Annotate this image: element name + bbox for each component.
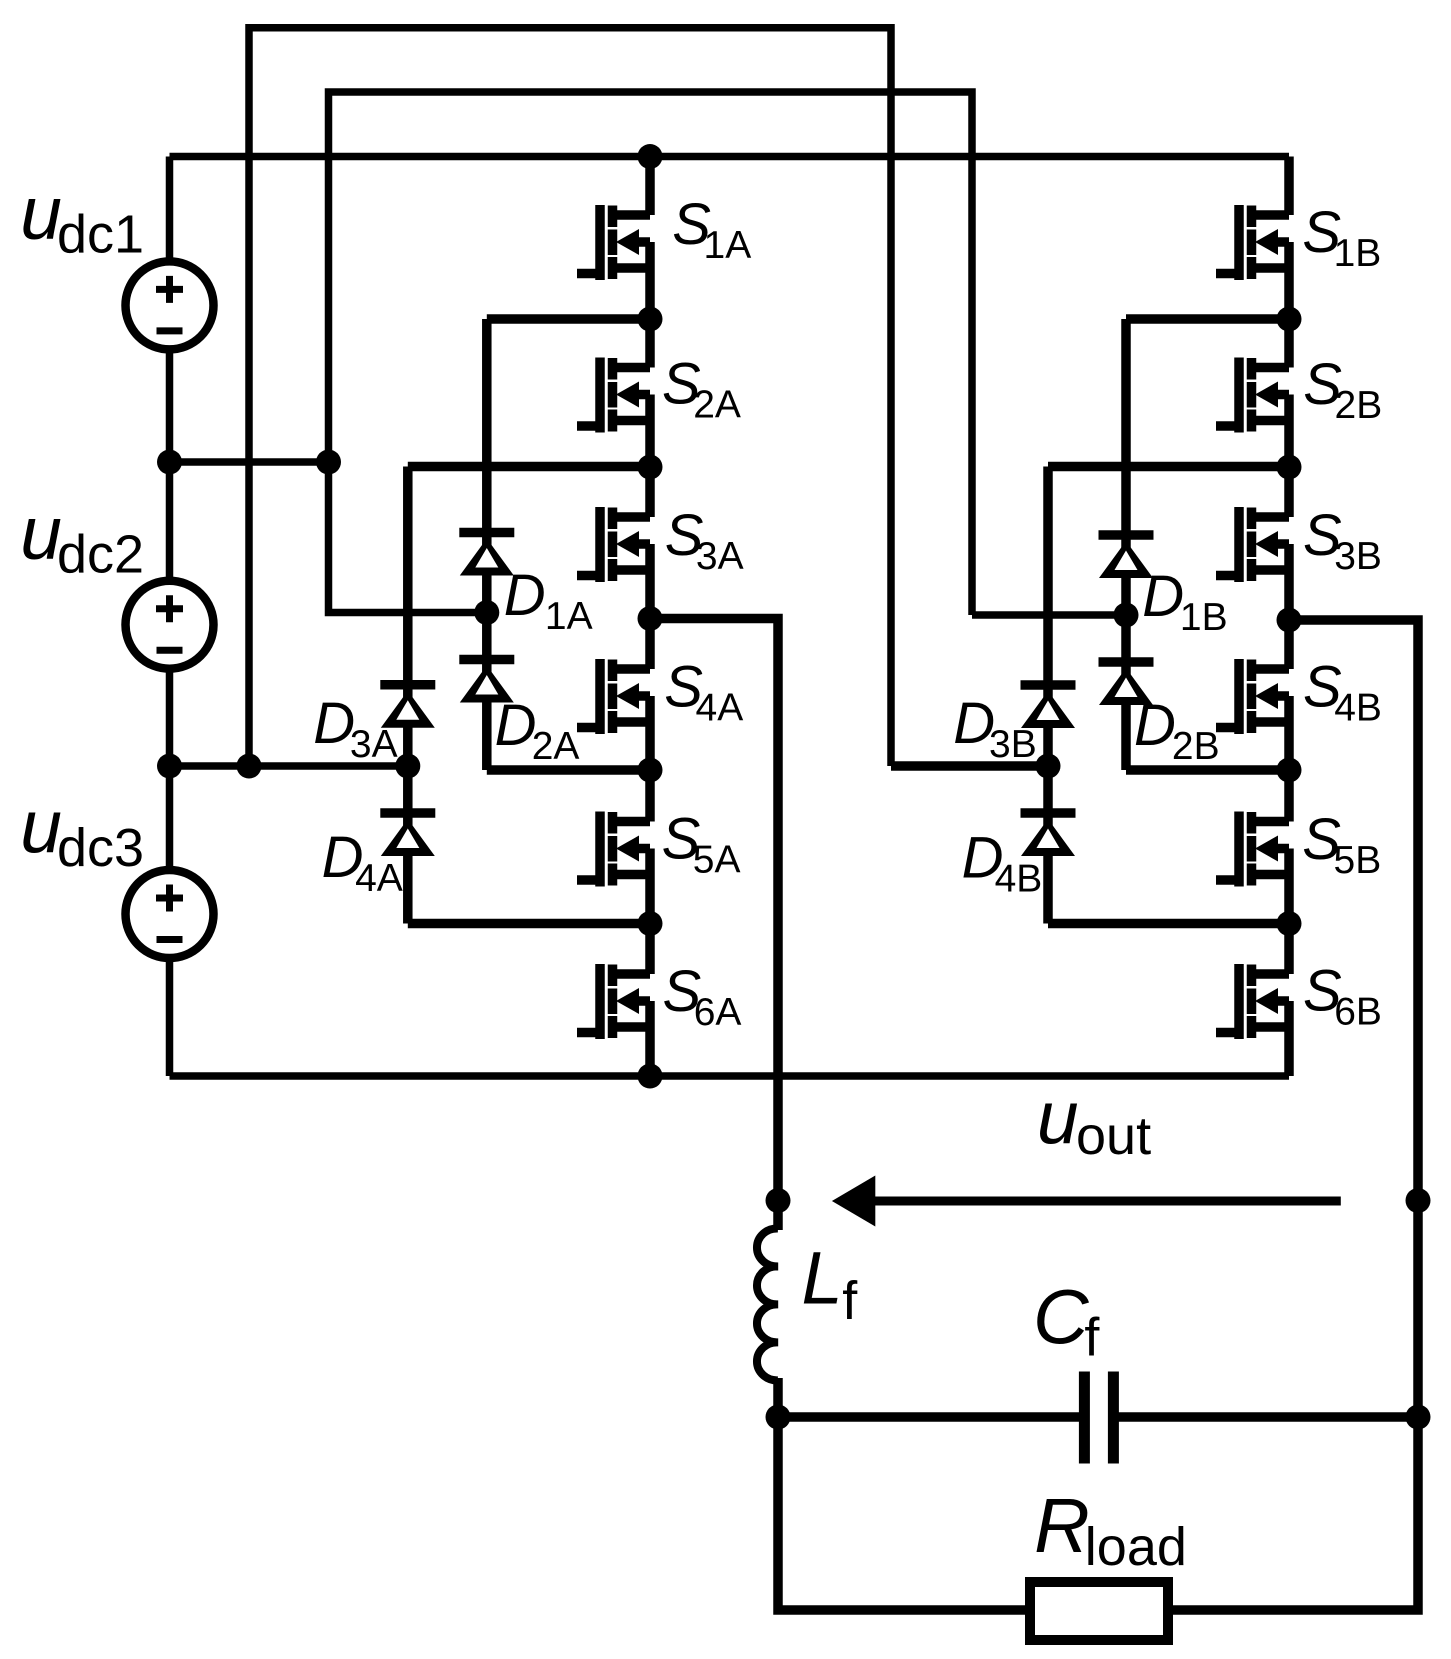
svg-text:D: D (1134, 693, 1176, 758)
svg-text:load: load (1085, 1517, 1187, 1577)
svg-text:2B: 2B (1335, 384, 1383, 427)
svg-text:D: D (1142, 564, 1184, 629)
svg-text:3A: 3A (350, 723, 398, 766)
svg-text:u: u (20, 171, 62, 255)
svg-text:2A: 2A (532, 725, 580, 768)
svg-text:3B: 3B (1334, 535, 1382, 578)
svg-text:4B: 4B (1334, 686, 1382, 729)
svg-text:4B: 4B (995, 857, 1043, 900)
svg-text:L: L (802, 1236, 843, 1319)
svg-text:out: out (1076, 1106, 1151, 1166)
svg-text:2B: 2B (1172, 725, 1220, 768)
svg-text:6A: 6A (694, 991, 742, 1034)
svg-text:u: u (20, 785, 62, 869)
svg-text:4A: 4A (355, 857, 403, 900)
svg-text:dc2: dc2 (57, 524, 144, 584)
svg-text:5B: 5B (1334, 839, 1382, 882)
svg-text:dc3: dc3 (57, 818, 144, 878)
svg-text:6B: 6B (1334, 990, 1382, 1033)
svg-text:1B: 1B (1180, 596, 1228, 639)
svg-text:f: f (842, 1271, 858, 1331)
svg-text:u: u (20, 491, 62, 575)
svg-text:u: u (1037, 1076, 1079, 1160)
svg-text:R: R (1034, 1483, 1090, 1569)
svg-text:4A: 4A (696, 686, 744, 729)
svg-text:C: C (1033, 1274, 1090, 1360)
svg-text:dc1: dc1 (57, 205, 144, 265)
svg-text:5A: 5A (693, 839, 741, 882)
svg-text:3A: 3A (696, 535, 744, 578)
svg-text:D: D (495, 693, 537, 758)
svg-text:f: f (1084, 1308, 1100, 1368)
svg-text:D: D (313, 691, 355, 756)
svg-text:2A: 2A (693, 384, 741, 427)
svg-text:1A: 1A (545, 595, 593, 638)
svg-text:D: D (504, 563, 546, 628)
svg-text:3B: 3B (989, 723, 1037, 766)
svg-text:1B: 1B (1334, 232, 1382, 275)
svg-text:1A: 1A (704, 224, 752, 267)
